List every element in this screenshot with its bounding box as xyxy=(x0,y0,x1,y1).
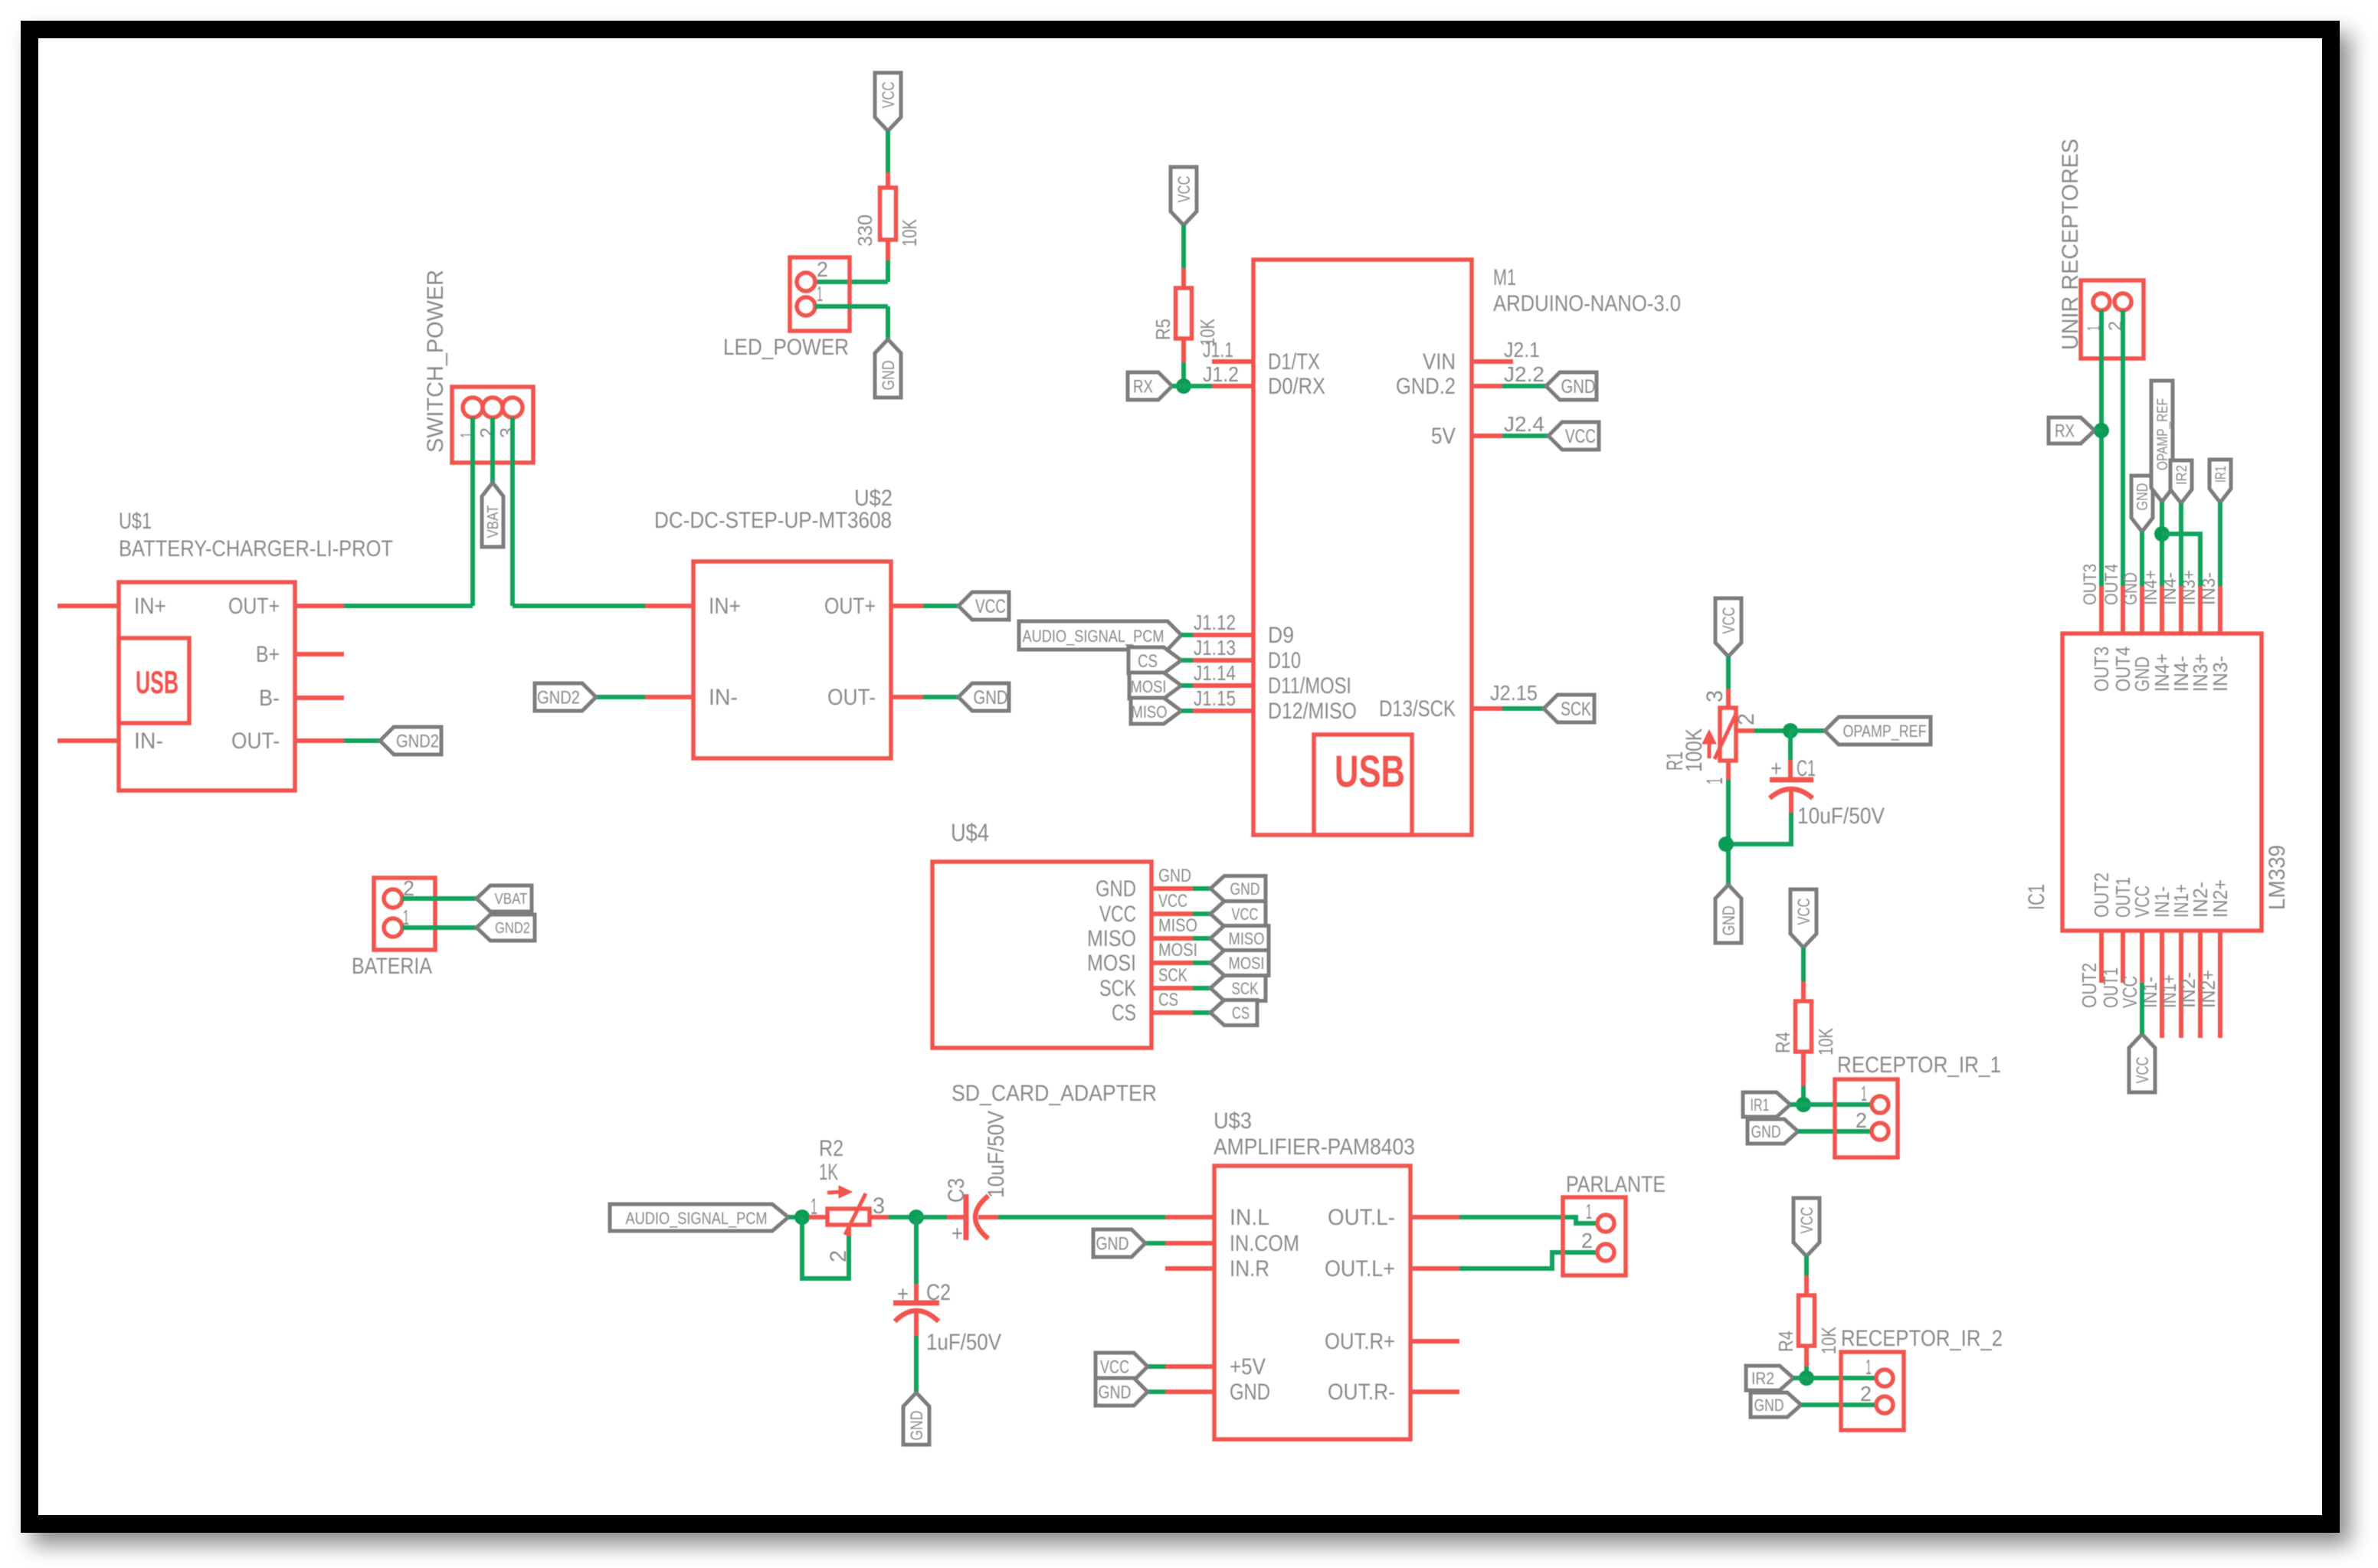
pin J1.14 D11/MOSI xyxy=(1193,683,1253,688)
capacitor C2 1uF/50V xyxy=(914,1217,919,1284)
svg-text:D11/MOSI: D11/MOSI xyxy=(1268,673,1351,699)
supply flag RX xyxy=(1128,372,1172,400)
supply flag VCC below IC1 xyxy=(2129,1034,2155,1092)
svg-text:2: 2 xyxy=(1581,1229,1593,1252)
svg-text:IR2: IR2 xyxy=(1751,1369,1774,1388)
svg-text:1: 1 xyxy=(1702,777,1728,784)
wire junction to IN3+ xyxy=(2162,534,2200,586)
supply flag GND above IC1 xyxy=(2131,476,2153,532)
supply flag GND2 at U$1 OUT- xyxy=(380,727,441,755)
net flag GND at RECEPTOR_IR_1 pin2 xyxy=(1747,1119,1798,1144)
svg-text:LED_POWER: LED_POWER xyxy=(723,335,849,360)
supply flag VCC above LED resistor xyxy=(875,73,901,131)
pin GND of IC1 (top) xyxy=(2140,586,2144,633)
supply flag VBAT at switch pin2 xyxy=(482,483,503,547)
svg-text:OUT2: OUT2 xyxy=(2090,872,2113,918)
net flag IR2 xyxy=(1746,1366,1793,1390)
svg-text:5V: 5V xyxy=(1431,424,1456,449)
svg-text:100K: 100K xyxy=(1682,728,1707,772)
wire GND to pin2 xyxy=(1801,1403,1876,1407)
wire GND flag to GND xyxy=(1148,1390,1165,1394)
USB sub-box of U$1 xyxy=(119,638,189,723)
wire GND to pin2 xyxy=(1798,1129,1872,1134)
pin IN+ of U$1 xyxy=(57,604,119,608)
wire R1 pin1 to GND xyxy=(1726,780,1731,885)
pin +5V of U$3 xyxy=(1165,1364,1214,1369)
supply flag GND below LED_POWER xyxy=(875,339,901,398)
trimmer R1 100K xyxy=(1726,689,1731,708)
pin IN.COM of U$3 xyxy=(1165,1241,1214,1246)
svg-text:GND2: GND2 xyxy=(495,920,530,937)
wire BATERIA pin1 to GND2 xyxy=(402,925,477,930)
wire VCC to R4 xyxy=(1801,948,1806,981)
net flag IR2 above IC1 xyxy=(2170,460,2192,503)
svg-text:2: 2 xyxy=(1856,1108,1867,1132)
svg-text:SD_CARD_ADAPTER: SD_CARD_ADAPTER xyxy=(952,1081,1157,1106)
svg-text:OUT+: OUT+ xyxy=(228,594,280,619)
svg-text:+: + xyxy=(1770,756,1782,781)
svg-text:10K: 10K xyxy=(1814,1027,1837,1056)
svg-text:GND: GND xyxy=(1561,376,1596,398)
pin VCC of IC1 (bottom) xyxy=(2140,931,2144,983)
net flag AUDIO_SIGNAL_PCM at R2 xyxy=(610,1204,788,1231)
wire MISO to flag xyxy=(1193,936,1210,941)
pin IN+ of U$2 xyxy=(645,604,693,608)
supply flag GND below R1 xyxy=(1715,885,1741,943)
wire R2 wiper loop xyxy=(847,1225,851,1236)
pin IN2- of IC1 (bottom) xyxy=(2198,931,2203,1038)
wire MOSI to flag xyxy=(1193,961,1210,965)
wire AUDIO_SIGNAL_PCM to J1.12 xyxy=(1181,633,1193,637)
svg-text:GND: GND xyxy=(1096,1234,1129,1255)
wire VCC to resistor xyxy=(886,131,890,172)
wire switch pin2 to VBAT xyxy=(490,417,495,483)
svg-text:IR1: IR1 xyxy=(2213,466,2229,483)
USB sub-box of M1 xyxy=(1314,735,1412,835)
svg-text:OUT.L-: OUT.L- xyxy=(1328,1205,1395,1230)
pin IN.R of U$3 xyxy=(1165,1266,1214,1271)
svg-text:+: + xyxy=(897,1282,909,1307)
wire IR2 flag to pin1 xyxy=(1793,1376,1876,1380)
net flag OPAMP_REF xyxy=(1825,717,1931,745)
svg-text:U$1: U$1 xyxy=(119,509,152,534)
svg-text:RX: RX xyxy=(1133,377,1153,398)
svg-text:GND: GND xyxy=(1230,879,1260,899)
junction at RX node xyxy=(2094,423,2109,438)
wire IR1 flag to junction to pin1 xyxy=(1790,1102,1872,1107)
svg-text:GND: GND xyxy=(1230,1380,1270,1405)
svg-text:VCC: VCC xyxy=(1794,898,1813,925)
pin IN1+ of IC1 (bottom) xyxy=(2179,931,2183,1038)
pin OUT+ of U$2 xyxy=(891,604,923,608)
svg-text:J1.12: J1.12 xyxy=(1194,611,1236,634)
svg-text:J2.1: J2.1 xyxy=(1504,338,1540,362)
svg-text:IR1: IR1 xyxy=(1751,1095,1770,1115)
net flag AUDIO_SIGNAL_PCM at J1.12 xyxy=(1019,621,1181,650)
pin J1.1 D1/TX xyxy=(1212,359,1253,364)
svg-text:+: + xyxy=(952,1221,963,1246)
net flag MISO at U$4 xyxy=(1210,926,1269,951)
svg-text:R2: R2 xyxy=(819,1136,843,1161)
wire LED pin1 to GND xyxy=(815,304,888,309)
svg-text:D10: D10 xyxy=(1268,648,1301,673)
svg-text:D1/TX: D1/TX xyxy=(1268,349,1320,375)
svg-text:GND: GND xyxy=(907,1411,926,1441)
svg-text:OUT-: OUT- xyxy=(827,685,876,710)
svg-text:2: 2 xyxy=(1734,713,1759,725)
wire C1 bottom to R1 pin1 net xyxy=(1726,813,1791,844)
svg-text:3: 3 xyxy=(1702,690,1728,702)
supply flag GND2 at U$2 IN- xyxy=(535,683,596,711)
pin J2.1 VIN xyxy=(1472,359,1513,364)
pin OUT+ of U$1 xyxy=(295,604,344,608)
svg-text:USB: USB xyxy=(136,664,179,700)
pin R2.3 to junction 2 xyxy=(870,1215,889,1219)
svg-text:1K: 1K xyxy=(819,1160,838,1185)
svg-text:MOSI: MOSI xyxy=(1158,940,1197,961)
wire OUT.L+ to PARLANTE pin2 xyxy=(1459,1252,1597,1268)
junction at IR1 node xyxy=(1796,1097,1811,1112)
svg-text:2: 2 xyxy=(1860,1382,1872,1406)
svg-text:VCC: VCC xyxy=(1565,426,1596,447)
pin IN4+ of IC1 (top) xyxy=(2160,586,2164,633)
wire U$2 OUT+ to VCC xyxy=(923,604,958,608)
pin IN- of U$2 xyxy=(645,695,693,699)
svg-text:IN-: IN- xyxy=(134,728,163,754)
wire switch pin3 to U$2 IN+ xyxy=(513,604,645,608)
pin R1 wiper to OPAMP_REF node xyxy=(1736,728,1754,733)
wire RX junction to D0 pin xyxy=(1172,384,1212,388)
pin OUT.R- of U$3 xyxy=(1410,1390,1459,1394)
svg-text:IN+: IN+ xyxy=(709,594,741,619)
wire C2 to GND xyxy=(914,1336,919,1393)
wire OUT.L- to PARLANTE pin1 xyxy=(1459,1217,1597,1223)
svg-text:OUT3: OUT3 xyxy=(2090,647,2113,692)
net flag RX near IC1 xyxy=(2049,417,2095,444)
pin OUT.R+ of U$3 xyxy=(1410,1339,1459,1344)
pin J1.2 D0/RX xyxy=(1212,384,1253,388)
supply flag GND2 at BATERIA xyxy=(477,915,535,941)
svg-text:U$4: U$4 xyxy=(951,819,989,846)
wire BATERIA pin2 to VBAT xyxy=(402,896,477,901)
junction IN4+/IN3+ tie xyxy=(2154,526,2170,542)
supply flag VCC at +5V xyxy=(1096,1353,1148,1380)
svg-text:VCC: VCC xyxy=(1158,891,1187,912)
svg-text:C2: C2 xyxy=(926,1280,951,1305)
pin IN3- of IC1 (top) xyxy=(2218,586,2222,633)
junction at C3/C2 node xyxy=(909,1210,924,1225)
resistor R5 10K xyxy=(1181,268,1186,288)
svg-text:GND: GND xyxy=(1754,1396,1784,1415)
svg-text:J1.2: J1.2 xyxy=(1203,362,1239,386)
svg-text:GND: GND xyxy=(1751,1122,1781,1141)
net flag SCK at U$4 xyxy=(1210,976,1266,1001)
wire switch pin1 down to U$1 OUT+ net xyxy=(470,417,475,606)
supply flag GND at J2.2 xyxy=(1546,372,1597,400)
pin OUT- of U$1 xyxy=(295,738,344,743)
net flag GND at RECEPTOR_IR_2 pin2 xyxy=(1751,1393,1801,1417)
wire IR2 to IN4- xyxy=(2179,503,2183,586)
svg-text:VCC: VCC xyxy=(1232,905,1259,924)
junction at OPAMP_REF node xyxy=(1783,723,1798,738)
net flag MOSI at J1.14 xyxy=(1129,673,1181,699)
svg-text:IN.L: IN.L xyxy=(1230,1205,1269,1230)
pin J1.12 D9 xyxy=(1193,633,1253,637)
svg-text:AUDIO_SIGNAL_PCM: AUDIO_SIGNAL_PCM xyxy=(1023,627,1164,646)
wire U$2 OUT- to GND xyxy=(923,695,958,699)
svg-text:CS: CS xyxy=(1158,990,1178,1010)
junction on R1-GND wire xyxy=(1718,836,1734,852)
svg-text:D12/MISO: D12/MISO xyxy=(1268,699,1357,724)
resistor R4 10K (IR1) xyxy=(1801,981,1806,1001)
svg-text:IC1: IC1 xyxy=(2024,884,2049,910)
supply flag GND below C2 xyxy=(903,1393,929,1445)
svg-text:J1.13: J1.13 xyxy=(1194,636,1236,660)
pin IN1- of IC1 (bottom) xyxy=(2160,931,2164,1038)
wire UNIR pin2 down to IC1 OUT4 xyxy=(2121,310,2125,586)
svg-text:VBAT: VBAT xyxy=(485,506,502,538)
svg-text:MISO: MISO xyxy=(1229,929,1265,948)
svg-text:1: 1 xyxy=(1861,1082,1867,1105)
svg-text:OUT-: OUT- xyxy=(231,728,280,754)
svg-text:GND: GND xyxy=(974,687,1008,709)
svg-text:IN2+: IN2+ xyxy=(2196,970,2219,1008)
svg-text:GND: GND xyxy=(2121,572,2141,605)
svg-text:VCC: VCC xyxy=(879,81,898,108)
svg-text:B-: B- xyxy=(259,686,280,711)
svg-text:1: 1 xyxy=(811,1194,817,1219)
wire CS to flag xyxy=(1193,1010,1210,1015)
supply flag VCC above R5 xyxy=(1171,167,1197,225)
wire U$1 OUT+ horizontal xyxy=(344,604,473,608)
svg-text:J1.1: J1.1 xyxy=(1203,338,1233,362)
svg-text:VCC: VCC xyxy=(2133,1056,2152,1083)
svg-text:GND: GND xyxy=(879,361,898,391)
svg-text:GND: GND xyxy=(1719,906,1738,936)
wire GND flag to IC1 GND xyxy=(2140,532,2144,586)
svg-text:D13/SCK: D13/SCK xyxy=(1379,696,1456,722)
svg-text:IN+: IN+ xyxy=(134,594,166,619)
svg-text:SWITCH_POWER: SWITCH_POWER xyxy=(423,270,448,453)
pin OUT.L+ of U$3 xyxy=(1410,1266,1459,1271)
pin IN- of U$1 xyxy=(57,738,119,743)
svg-text:330: 330 xyxy=(853,214,876,247)
svg-text:IN.COM: IN.COM xyxy=(1230,1231,1299,1256)
pin OUT4 of IC1 (top) xyxy=(2121,586,2125,633)
wire J2.4 to VCC flag xyxy=(1502,434,1548,438)
wire GND2 to U$2 IN- xyxy=(596,695,645,699)
svg-text:2: 2 xyxy=(817,257,828,281)
pin OUT.L- of U$3 xyxy=(1410,1215,1459,1219)
wire J2.15 to SCK flag xyxy=(1502,706,1544,711)
svg-text:CS: CS xyxy=(1138,651,1158,672)
net flag IR1 xyxy=(1743,1092,1790,1117)
svg-text:IN3-: IN3- xyxy=(2209,656,2232,692)
wire switch pin3 down xyxy=(510,417,515,606)
svg-text:R4: R4 xyxy=(1774,1331,1797,1352)
svg-text:DC-DC-STEP-UP-MT3608: DC-DC-STEP-UP-MT3608 xyxy=(654,508,892,533)
pin OUT2 of IC1 (bottom) xyxy=(2099,931,2104,983)
wire OPAMP_REF to IN4+ xyxy=(2160,502,2164,586)
wire C3 to U$3 IN.L xyxy=(998,1215,1165,1219)
svg-text:10K: 10K xyxy=(898,218,921,247)
svg-text:D0/RX: D0/RX xyxy=(1268,374,1325,399)
supply flag GND at U$2 OUT- xyxy=(958,683,1009,711)
svg-text:LM339: LM339 xyxy=(2265,845,2290,910)
svg-text:OUT+: OUT+ xyxy=(824,594,876,619)
pin OUT3 of IC1 (top) xyxy=(2099,586,2104,633)
svg-text:GND2: GND2 xyxy=(396,732,439,752)
pin IN.L of U$3 xyxy=(1165,1215,1214,1219)
supply flag SCK at J2.15 xyxy=(1544,695,1594,722)
junction at R2 pin1 xyxy=(794,1210,810,1225)
net flag MISO at J1.15 xyxy=(1131,698,1181,724)
svg-text:J2.4: J2.4 xyxy=(1504,412,1544,436)
svg-text:IR2: IR2 xyxy=(2174,465,2190,485)
net flag CS at J1.13 xyxy=(1128,647,1181,673)
svg-text:GND: GND xyxy=(1096,876,1136,902)
svg-text:CS: CS xyxy=(1232,1003,1250,1023)
pin J1.13 D10 xyxy=(1193,658,1253,663)
svg-text:AUDIO_SIGNAL_PCM: AUDIO_SIGNAL_PCM xyxy=(626,1209,768,1228)
svg-text:1: 1 xyxy=(817,282,823,306)
svg-text:R4: R4 xyxy=(1771,1032,1794,1053)
svg-text:VCC: VCC xyxy=(1719,607,1738,633)
pin B+ of U$1 xyxy=(295,652,344,656)
net flag CS at U$4 xyxy=(1210,1000,1257,1026)
svg-text:SCK: SCK xyxy=(1561,699,1591,720)
svg-text:OUT.R-: OUT.R- xyxy=(1328,1380,1395,1405)
supply flag VCC at J2.4 xyxy=(1548,422,1599,450)
net flag OPAMP_REF above IC1 xyxy=(2151,381,2173,502)
supply flag VBAT at BATERIA xyxy=(477,885,532,912)
pin J1.15 D12/MISO xyxy=(1193,709,1253,713)
supply flag VCC above R4 (IR2) xyxy=(1793,1198,1820,1256)
svg-text:3: 3 xyxy=(496,427,519,438)
pin GND of U$3 xyxy=(1165,1390,1214,1394)
capacitor C1 10uF/50V xyxy=(1788,731,1793,760)
svg-text:VCC: VCC xyxy=(1174,175,1194,202)
pin J2.15 D13/SCK xyxy=(1472,706,1502,711)
svg-text:VCC: VCC xyxy=(1099,902,1136,927)
svg-text:SCK: SCK xyxy=(1232,979,1259,998)
svg-text:GND.2: GND.2 xyxy=(1396,374,1456,399)
svg-text:B+: B+ xyxy=(256,642,280,667)
svg-text:CS: CS xyxy=(1112,1000,1136,1026)
supply flag VCC above R4 (IR1) xyxy=(1790,889,1816,948)
svg-text:D9: D9 xyxy=(1268,623,1294,648)
svg-text:VCC: VCC xyxy=(975,596,1006,617)
svg-text:10uF/50V: 10uF/50V xyxy=(984,1111,1009,1198)
svg-text:R5: R5 xyxy=(1151,319,1174,340)
wire VCC to R5 xyxy=(1181,225,1186,268)
pin OUT1 of IC1 (bottom) xyxy=(2121,931,2125,983)
pin R1.1 down xyxy=(1726,761,1731,780)
wire VCC to R4 (IR2) xyxy=(1804,1256,1809,1275)
svg-text:MISO: MISO xyxy=(1087,926,1136,951)
net flag IR1 above IC1 xyxy=(2209,460,2231,502)
svg-text:SCK: SCK xyxy=(1158,965,1187,986)
wire GND flag to IN.COM xyxy=(1145,1241,1165,1246)
svg-text:MOSI: MOSI xyxy=(1229,954,1265,973)
pin OUT- of U$2 xyxy=(891,695,923,699)
svg-text:C1: C1 xyxy=(1797,756,1816,781)
svg-text:MOSI: MOSI xyxy=(1087,951,1136,976)
svg-text:1uF/50V: 1uF/50V xyxy=(926,1330,1001,1355)
wire J2.2 to GND flag xyxy=(1502,384,1546,388)
wire OUT- to GND2 xyxy=(344,738,380,743)
svg-text:OUT4: OUT4 xyxy=(2101,564,2122,605)
svg-text:GND2: GND2 xyxy=(537,688,580,709)
wire VCC to R1 pin3 xyxy=(1726,656,1731,689)
svg-text:GND: GND xyxy=(2134,483,2151,511)
svg-text:+5V: +5V xyxy=(1230,1354,1266,1380)
svg-text:PARLANTE: PARLANTE xyxy=(1566,1172,1666,1197)
svg-text:U$3: U$3 xyxy=(1214,1108,1252,1134)
svg-text:C3: C3 xyxy=(944,1178,969,1203)
svg-text:VIN: VIN xyxy=(1423,349,1456,375)
wire R5 to RX net xyxy=(1181,362,1186,386)
wire RX to junction xyxy=(2095,428,2101,433)
svg-text:BATERIA: BATERIA xyxy=(352,954,432,979)
wire IR1 to IN3- xyxy=(2218,502,2222,586)
svg-text:1: 1 xyxy=(1586,1200,1592,1223)
resistor R4 10K (IR2) xyxy=(1804,1275,1809,1295)
connector BATERIA xyxy=(374,878,435,950)
svg-text:J1.14: J1.14 xyxy=(1194,661,1236,685)
svg-text:OUT2: OUT2 xyxy=(2078,963,2101,1008)
svg-text:RECEPTOR_IR_2: RECEPTOR_IR_2 xyxy=(1841,1326,2003,1351)
svg-text:MOSI: MOSI xyxy=(1131,677,1167,696)
connector LED_POWER xyxy=(790,257,850,331)
wire to OPAMP_REF flag xyxy=(1790,728,1825,733)
wire SCK to flag xyxy=(1193,986,1210,990)
pin IN2+ of IC1 (bottom) xyxy=(2218,931,2222,1038)
svg-text:ARDUINO-NANO-3.0: ARDUINO-NANO-3.0 xyxy=(1493,291,1681,316)
svg-text:1: 1 xyxy=(1865,1355,1872,1379)
wire IC1 VCC pin to VCC flag xyxy=(2140,983,2144,1034)
svg-text:IN2+: IN2+ xyxy=(2209,879,2232,918)
resistor 330/10K for LED_POWER xyxy=(886,172,890,188)
wire VCC flag to +5V xyxy=(1148,1364,1165,1369)
svg-text:M1: M1 xyxy=(1493,265,1516,290)
svg-text:USB: USB xyxy=(1335,747,1405,797)
svg-text:GND: GND xyxy=(1158,866,1191,886)
junction at RX / D0 net xyxy=(1176,378,1191,394)
supply flag VCC at U$2 OUT+ xyxy=(958,592,1009,620)
pin B- of U$1 xyxy=(295,696,344,700)
pin J2.2 GND.2 xyxy=(1472,384,1502,388)
svg-text:SCK: SCK xyxy=(1099,976,1136,1001)
svg-text:OPAMP_REF: OPAMP_REF xyxy=(1843,722,1927,741)
pin IN3+ of IC1 (top) xyxy=(2198,586,2203,633)
supply flag GND at IN.COM xyxy=(1093,1229,1145,1257)
junction at IR2 node xyxy=(1799,1370,1814,1386)
svg-text:VCC: VCC xyxy=(1797,1206,1816,1233)
svg-text:VBAT: VBAT xyxy=(495,891,528,908)
pin J2.4 5V xyxy=(1472,434,1502,438)
wire AUDIO_SIGNAL_PCM to R2 junction xyxy=(788,1215,809,1219)
wire UNIR pin1 down to IC1 OUT3 xyxy=(2099,310,2104,586)
svg-text:GND: GND xyxy=(1099,1383,1132,1403)
svg-text:IN-: IN- xyxy=(709,685,738,710)
svg-text:OUT3: OUT3 xyxy=(2080,564,2101,605)
svg-text:OUT.L+: OUT.L+ xyxy=(1325,1256,1395,1282)
svg-text:J1.15: J1.15 xyxy=(1194,686,1236,710)
svg-text:J2.2: J2.2 xyxy=(1504,362,1544,386)
wire resistor to LED pin2 xyxy=(886,260,890,282)
svg-text:MISO: MISO xyxy=(1132,702,1168,722)
